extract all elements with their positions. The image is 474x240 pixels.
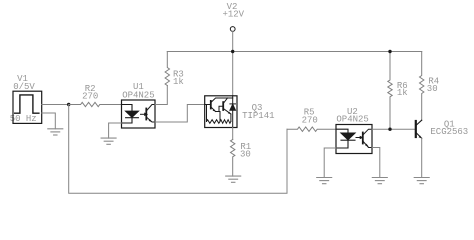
optocoupler U2 LED — [336, 129, 355, 148]
voltage source V1 label — [10, 74, 37, 124]
svg-text:1k: 1k — [397, 88, 408, 98]
svg-text:50 Hz: 50 Hz — [10, 114, 37, 124]
optocoupler U1 phototransistor — [146, 105, 155, 123]
diode inside Q3 — [230, 104, 236, 110]
resistor R6 label — [397, 81, 408, 98]
transistor Q1 — [416, 120, 422, 138]
resistor R3 label — [173, 70, 184, 88]
transistor Q3 darlington box — [205, 96, 237, 128]
svg-text:OP4N25: OP4N25 — [122, 90, 154, 100]
transistor Q1 label — [430, 119, 468, 137]
node A junction dot — [67, 103, 70, 106]
svg-text:30: 30 — [240, 149, 251, 159]
svg-text:+12V: +12V — [222, 10, 244, 20]
wire U2 emitter to ground — [372, 148, 380, 178]
junction dot rail R6 — [388, 50, 391, 53]
optocoupler U1 box — [122, 100, 156, 128]
ground at U2 LED — [317, 178, 332, 184]
voltage source V1 box — [13, 91, 42, 123]
transistor Q3 internals — [205, 96, 233, 128]
wire top rail +12V — [167, 51, 421, 53]
wire U1 cathode to ground — [109, 123, 122, 138]
svg-text:TIP141: TIP141 — [242, 111, 274, 121]
resistor R4 — [420, 52, 424, 121]
svg-text:270: 270 — [82, 91, 98, 101]
junction dot R6 base — [388, 128, 391, 131]
ground at Q1 — [414, 178, 429, 184]
wire U1 emitter to Q3 base — [155, 105, 205, 123]
optocoupler U2 phototransistor — [363, 129, 372, 147]
optocoupler U1 LED — [122, 105, 139, 124]
optocoupler U2 label — [336, 107, 368, 124]
ground at R1 — [226, 176, 241, 182]
resistor R4 label — [427, 76, 439, 94]
supply V2 terminal circle — [230, 27, 235, 32]
wire V1 pin plus to node A — [42, 104, 69, 106]
transistor Q3 label — [242, 103, 274, 121]
optocoupler U1 label — [122, 82, 154, 100]
resistor R1 — [231, 140, 235, 177]
wire U2 cathode to ground — [324, 148, 336, 178]
supply V2 label — [222, 2, 244, 20]
wire U2 collector to Q1 base — [372, 128, 415, 130]
ground at V1 — [48, 129, 63, 135]
optocoupler U1 light arrow — [141, 113, 149, 117]
wire U1 collector to R3 — [155, 86, 167, 105]
resistor R2 label — [82, 84, 98, 101]
wire V1 pin minus to ground — [42, 113, 56, 129]
resistor R2 — [69, 102, 122, 106]
wire Q1 emitter to ground — [421, 138, 423, 177]
wire Q3 to R1 — [232, 128, 234, 140]
resistor R5 label — [302, 108, 318, 126]
resistor R5 — [287, 127, 336, 131]
resistor R6 — [388, 52, 392, 129]
resistor R1 label — [240, 142, 251, 159]
svg-text:ECG2563: ECG2563 — [430, 127, 468, 137]
wire V2 down to rail and Q3 — [232, 32, 234, 96]
wire node A down and bottom rail to R5 — [69, 105, 287, 194]
svg-text:0/5V: 0/5V — [13, 82, 35, 92]
ground at U1 — [101, 138, 116, 144]
resistor R3 — [165, 52, 169, 86]
optocoupler U2 box — [336, 125, 372, 154]
svg-text:270: 270 — [302, 115, 318, 125]
svg-text:OP4N25: OP4N25 — [336, 115, 368, 125]
ground at U2 emitter — [372, 178, 387, 184]
junction dot V2 rail — [231, 50, 234, 53]
svg-text:30: 30 — [427, 84, 438, 94]
optocoupler U2 light arrow — [356, 136, 364, 140]
svg-text:1k: 1k — [173, 77, 184, 87]
